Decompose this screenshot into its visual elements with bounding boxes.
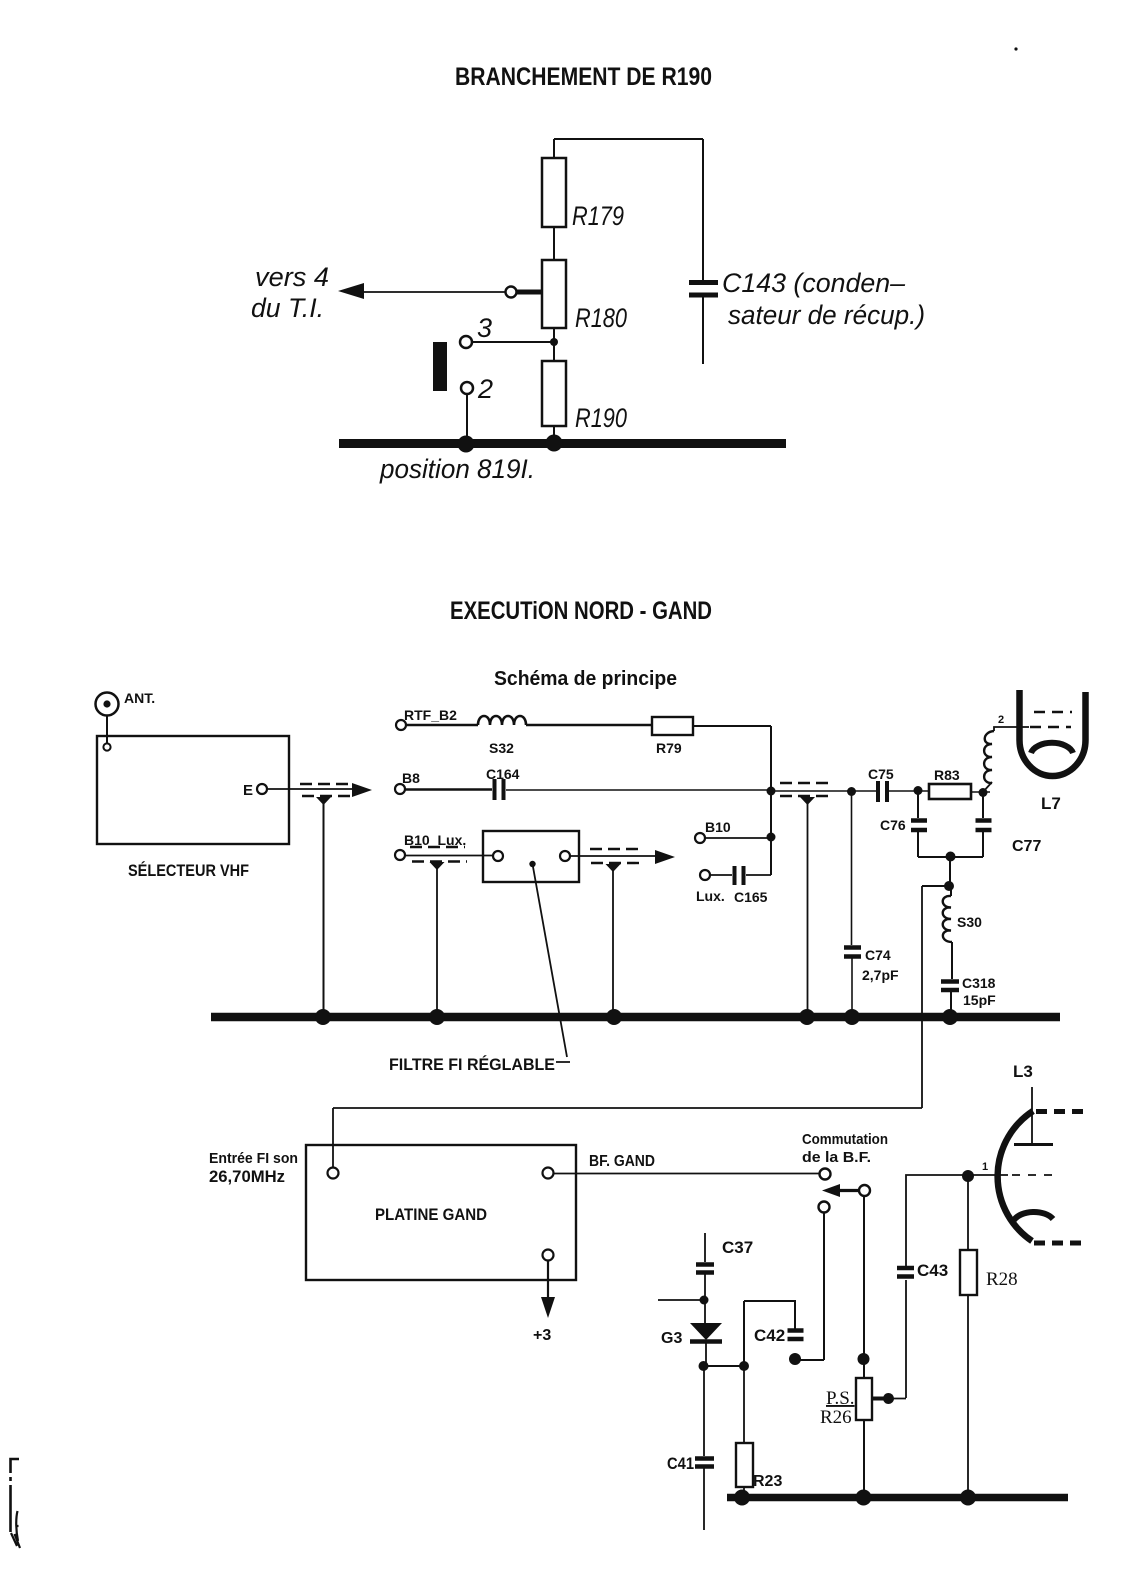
svg-text:R180: R180 [575,303,627,333]
box SELECTEUR VHF [97,736,289,844]
wire filter out [570,855,657,857]
node junction C74 tap [847,787,856,796]
tube L7 envelope [1020,690,1086,776]
wire top rail R179 to C143 [554,138,703,140]
wire B10Lux chassis drop to bus [436,868,438,1013]
node junction C77 [979,788,988,797]
wire C43 bottom lead [905,1280,907,1398]
inductor S32 [478,716,526,725]
wire G3 node to R23 node [703,1365,744,1367]
wire stub left [658,1299,704,1301]
paper speck top right [1014,47,1017,50]
capacitor C318 [941,982,959,991]
wire R83 to node [971,791,990,793]
page edge mark bottom left [11,1459,20,1532]
wire C74 to bus [851,958,853,1013]
svg-text:B10_Lux.: B10_Lux. [404,832,466,848]
wire to C42 bottom [795,1359,824,1361]
wire RTF drop vertical [770,726,772,875]
svg-text:R190: R190 [575,403,627,433]
diode G3 [690,1323,722,1340]
capacitor C75 [878,781,887,802]
svg-text:L7: L7 [1041,794,1061,813]
wire corner down to G3 row [743,1301,745,1366]
node wiper dot [883,1393,894,1404]
wire R179-R180 [553,227,555,260]
svg-text:BRANCHEMENT DE R190: BRANCHEMENT DE R190 [455,63,712,91]
diode G3 cathode bar [690,1339,722,1344]
resistor R23 [736,1443,753,1487]
shield dashes B8 line top [780,782,830,784]
switch circle lower contact [819,1202,830,1213]
node G3 bottom junction [699,1361,709,1371]
svg-text:L3: L3 [1013,1062,1033,1081]
page edge squiggle [11,1511,20,1548]
wire wiper to arrow vers 4 [352,291,506,293]
terminal circle B8 [395,784,405,794]
wire B10 to junction [705,837,768,839]
tube L3 cathode cup [1014,1212,1053,1220]
svg-text:position 819I.: position 819I. [379,454,535,484]
wire C37 to G3 [704,1274,706,1323]
shield dashes B8 line bottom [780,795,830,797]
node junction RTF/B8 [767,787,776,796]
wire terminal 3 to junction [472,341,551,343]
wire C43 top to pin1 line [906,1175,965,1266]
terminal ANT. outer circle [96,693,119,716]
svg-text:Schéma de principe: Schéma de principe [494,668,677,690]
wire C76-C77 bottom join [918,856,983,858]
node junction C76 [914,786,923,795]
chassis triangle E output [316,797,331,805]
tube L3 envelope arc [998,1111,1033,1241]
wire Lux to C165 [710,874,732,876]
svg-text:C74: C74 [865,947,891,963]
shield dashes B10Lux top [410,846,465,848]
terminal circle E [257,784,267,794]
capacitor C164 [495,779,504,800]
wire coil to pin 2 [983,727,1029,792]
terminal circle selector input [103,743,110,750]
tube L7 grid dashes lower [1030,726,1071,729]
wire R23 to bus [743,1487,745,1496]
svg-text:C75: C75 [868,766,894,782]
resistor R79 [652,717,693,735]
svg-text:P.S.: P.S. [826,1388,855,1409]
wire R179 top lead [553,139,555,158]
svg-text:3: 3 [477,313,492,343]
node pot top junction [858,1353,870,1365]
svg-text:SÉLECTEUR VHF: SÉLECTEUR VHF [128,861,249,880]
node bus dot under terminal 2 [458,436,475,453]
capacitor C37 [696,1265,714,1273]
wire R28 to bus [967,1295,969,1496]
arrow to vers 4 du T.I. [338,283,364,299]
wire C164 to junction [506,789,768,791]
capacitor C41 [695,1459,714,1467]
shield dashes B10Lux bottom [412,860,467,862]
potentiometer P.S. R26 [856,1378,872,1420]
terminal circle platine BF out [543,1168,554,1179]
node bus dot E drop [315,1009,331,1025]
wiper P.S. R26 thick [872,1397,886,1401]
node bus dot under R190 [546,435,563,452]
resistor R28 [960,1250,977,1295]
node junction R180/R190 [550,338,558,346]
terminal circle filter left [493,851,503,861]
wire B8 to C164 [405,788,492,790]
wire FI takeoff horizontal [333,1107,922,1109]
chassis triangle filter out [606,864,621,872]
svg-text:du T.I.: du T.I. [251,293,324,323]
wire G3 to node [705,1343,707,1366]
capacitor C77 [976,821,992,831]
wire C37 top lead [704,1233,706,1262]
wire B10_Lux to filter box [405,855,493,857]
capacitor C74 [844,948,861,957]
wire S32 to R79 [526,724,652,726]
wire FI input drop to platine [332,1108,334,1167]
wire ANT to selector box [106,716,108,743]
svg-text:vers 4: vers 4 [255,262,329,292]
wire node to C41 [703,1366,705,1456]
svg-text:FILTRE FI RÉGLABLE: FILTRE FI RÉGLABLE [389,1055,555,1074]
node bus dot pot [856,1490,872,1506]
svg-text:2: 2 [998,714,1004,726]
capacitor C43 [897,1268,914,1277]
terminal circle filter right [560,851,570,861]
svg-text:Lux.: Lux. [696,888,725,904]
svg-text:PLATINE GAND: PLATINE GAND [375,1205,487,1224]
wire R23 top lead [743,1366,745,1443]
tube L7 grid dashes upper [1034,711,1072,714]
chassis bus top section [339,439,786,448]
node bus dot C74 [844,1009,860,1025]
wire B8 chassis drop to bus [807,803,809,1013]
svg-text:R23: R23 [753,1473,782,1490]
tube L3 dashes top [1036,1109,1085,1114]
inductor L7 coupling coil [984,731,994,783]
resistor R83 [929,784,971,799]
node bus dot C318 [942,1009,958,1025]
wire C74 top lead [851,792,853,945]
capacitor C76 [911,821,927,831]
svg-text:R179: R179 [572,201,624,231]
svg-text:B8: B8 [402,770,420,786]
terminal ANT. inner dot [103,700,110,707]
switch circle BF contact [820,1169,831,1180]
arrow filter out [655,850,675,864]
node R23 top junction [739,1361,749,1371]
node bus dot filter drop [606,1009,622,1025]
wire E output [267,788,354,790]
svg-text:B10: B10 [705,819,731,835]
wire BF GAND to switch [554,1173,820,1175]
wire node to FI takeoff corner [922,885,949,887]
wire C77 bottom lead [982,832,984,857]
wire C42 top to corner [744,1301,795,1330]
svg-text:R79: R79 [656,740,682,756]
node junction S30 top [944,881,954,891]
box PLATINE GAND [306,1145,576,1280]
wire RTF_B2 to S32 [406,724,478,726]
terminal circle 3 [460,336,472,348]
terminal circle Lux [700,870,710,880]
node bus dot B10Lux drop [429,1009,445,1025]
svg-text:C318: C318 [962,975,996,991]
wire pot bottom to bus [863,1420,865,1496]
wire S30 top lead [950,886,952,896]
svg-text:Entrée FI son: Entrée FI son [209,1150,298,1167]
wire R79 to corner [693,725,771,727]
wire R28 top lead [967,1176,969,1250]
terminal circle 2 [461,382,473,394]
chassis bus bottom section [727,1494,1068,1502]
wire join to S30 node [949,857,951,886]
resistor R190 [542,361,566,426]
node junction B10 tap [767,833,776,842]
resistor R179 [542,158,566,227]
svg-text:C77: C77 [1012,838,1041,855]
chassis triangle B10Lux [430,862,445,870]
tube L3 grid bar [1014,1143,1053,1146]
wire R180 bottom to junction [553,328,555,361]
wire E chassis drop to bus [323,803,325,1013]
inductor S30 [943,896,952,942]
capacitor C165 [735,866,744,885]
wire to tube L3 pin 1 [971,1174,1008,1176]
svg-text:+3: +3 [533,1327,551,1344]
wire R180 wiper thick stub [517,290,542,295]
leader line to FILTRE label [533,864,571,1062]
tube L3 dashes bottom [1034,1241,1085,1246]
node bus dot R28 [960,1490,976,1506]
switch wafer black bar [433,342,447,391]
svg-text:26,70MHz: 26,70MHz [209,1167,285,1186]
arrow E output [352,783,372,797]
svg-text:C164: C164 [486,766,520,782]
node bus dot R23 [734,1490,750,1506]
svg-text:15pF: 15pF [963,992,996,1008]
svg-text:1: 1 [982,1161,988,1173]
shield dashes filter out top [590,848,640,850]
terminal circle B10_Lux [395,850,405,860]
terminal circle B10 [695,833,705,843]
capacitor C143 [689,283,718,296]
wire S30 to C318 [951,942,953,979]
wire lower contact drop [823,1213,825,1361]
tube L3 grid dashes middle [1012,1174,1052,1176]
node junction cap join [946,852,956,862]
svg-text:sateur de récup.): sateur de récup.) [728,300,925,330]
svg-text:R83: R83 [934,767,960,783]
svg-text:EXECUTiON NORD - GAND: EXECUTiON NORD - GAND [450,597,712,625]
wire C165 to corner [746,874,771,876]
wire terminal 2 to bus [466,394,468,440]
svg-text:R26: R26 [820,1407,852,1428]
terminal circle platine FI in [328,1168,339,1179]
terminal circle RTF_B2 [396,720,406,730]
svg-text:RTF_B2: RTF_B2 [404,707,457,723]
svg-text:C143 (conden–: C143 (conden– [722,268,906,298]
arrowhead wiper [822,1184,840,1197]
svg-text:C41: C41 [667,1454,694,1473]
chassis bus middle section [211,1013,1060,1022]
wire C318 to bus [950,992,952,1013]
wire C41 bottom hanging [703,1468,705,1530]
node stub junction [700,1296,709,1305]
wire C77 top lead [982,793,984,818]
terminal circle wiper R180 [506,287,517,298]
box FILTRE FI [483,831,579,882]
node C42 bottom dot [789,1353,801,1365]
wire C76 bottom lead [917,832,919,857]
svg-text:de la B.F.: de la B.F. [802,1149,871,1166]
switch arrow wiper [838,1189,860,1192]
chassis triangle B8 line [800,797,815,805]
wire C143 top lead [702,139,704,280]
svg-text:S32: S32 [489,740,514,756]
wire junction to C75 [774,790,876,792]
shield dashes filter out bottom [591,862,641,864]
svg-text:R28: R28 [986,1269,1018,1290]
svg-text:G3: G3 [661,1330,682,1347]
svg-text:ANT.: ANT. [124,690,155,706]
shield dashes E output top [300,783,348,785]
shield dashes E output bottom [302,795,350,797]
wire C76 top lead [917,791,919,818]
node bus dot B8 drop [799,1009,815,1025]
svg-text:S30: S30 [957,914,982,930]
wire R190 to bus [553,426,555,440]
wire wiper to C43 line [888,1398,906,1400]
leader dot filter [529,861,535,867]
switch circle wiper [859,1185,870,1196]
terminal circle platine +3 [543,1250,554,1261]
tube L3 pin top lead [1031,1087,1033,1143]
arrow +3 [541,1297,555,1318]
resistor R180 [542,260,566,328]
wire platine +3 arrow [547,1261,549,1300]
svg-text:Commutation: Commutation [802,1131,888,1148]
wire C75 to R83 [889,790,929,792]
wire filter chassis drop to bus [612,870,614,1013]
wire FI takeoff vertical long [921,886,923,1108]
svg-text:BF. GAND: BF. GAND [589,1153,655,1170]
svg-text:C76: C76 [880,817,906,833]
node junction R28 top [962,1170,974,1182]
svg-text:2,7pF: 2,7pF [862,967,899,983]
svg-text:C37: C37 [722,1238,753,1257]
wire wiper drop to pot [863,1196,865,1378]
tube L7 cathode cup [1031,743,1073,753]
svg-text:C165: C165 [734,889,768,905]
wire C143 bottom lead [702,297,704,364]
capacitor C42 [788,1331,804,1340]
svg-text:C43: C43 [917,1261,948,1280]
svg-text:E: E [243,782,253,799]
svg-text:C42: C42 [754,1326,785,1345]
svg-text:2: 2 [477,374,493,404]
